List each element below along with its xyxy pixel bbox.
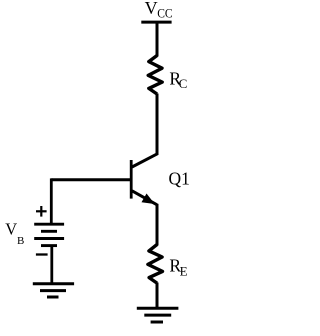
ground (right) <box>137 308 179 322</box>
resistor RE <box>148 245 163 284</box>
svg-text:V: V <box>145 0 158 18</box>
wire: RE bottom to right ground <box>156 283 159 309</box>
svg-text:CC: CC <box>157 6 172 20</box>
battery VB <box>34 224 64 245</box>
resistor RC <box>148 56 162 95</box>
svg-text:E: E <box>180 264 188 279</box>
ground (left) <box>33 284 74 297</box>
svg-text:B: B <box>17 235 24 247</box>
wire: corner down to battery plus <box>50 178 53 224</box>
svg-text:Q1: Q1 <box>169 168 190 188</box>
wire: RC bottom to collector <box>156 94 159 156</box>
wire: VCC rail to RC top <box>156 22 159 56</box>
svg-text:C: C <box>179 76 188 91</box>
label VB <box>5 220 24 247</box>
transistor Q1 <box>131 154 158 205</box>
plus sign <box>36 206 47 217</box>
label Q1 <box>169 168 190 188</box>
wire: base to left corner <box>51 178 131 181</box>
label RE <box>169 256 187 279</box>
wire: battery to left ground <box>50 246 53 284</box>
svg-text:V: V <box>5 220 17 239</box>
net label VCC <box>145 0 173 20</box>
power rail VCC <box>141 21 171 24</box>
wire: emitter to RE top <box>156 204 159 246</box>
label RC <box>169 69 187 92</box>
minus sign <box>36 253 48 255</box>
